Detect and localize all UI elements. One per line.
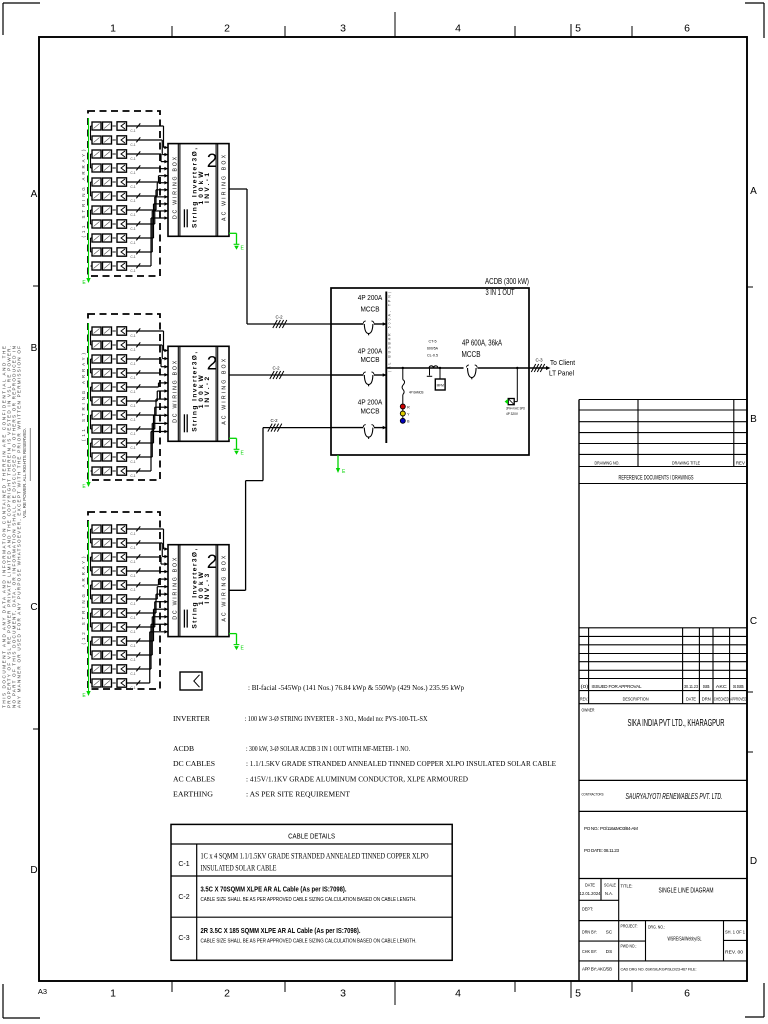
svg-text:AC CABLES: AC CABLES [173, 775, 215, 784]
svg-text:(AL BUSBAR 500A, TPN): (AL BUSBAR 500A, TPN) [387, 292, 391, 372]
svg-text:ACDB (300 kW): ACDB (300 kW) [485, 277, 529, 286]
svg-text:AC WIRING BOX: AC WIRING BOX [221, 555, 227, 622]
svg-text:4P 200A: 4P 200A [358, 398, 383, 407]
svg-text:(12 STRING ARRAY): (12 STRING ARRAY) [81, 556, 86, 645]
svg-text:C-1: C-1 [130, 269, 135, 273]
svg-text:: 100 kW 3-Ø STRING INVERTER -: : 100 kW 3-Ø STRING INVERTER - 3 NO., Mo… [245, 714, 428, 723]
svg-text:WSRE/SA/Webby/SL: WSRE/SA/Webby/SL [668, 937, 702, 943]
svg-text:SC: SC [606, 930, 613, 935]
svg-text:3PH+N AC SPD: 3PH+N AC SPD [506, 407, 525, 411]
svg-text:C-1: C-1 [130, 446, 135, 450]
svg-text:C-1: C-1 [130, 616, 135, 620]
svg-text:2: 2 [207, 552, 218, 573]
svg-text:C-3: C-3 [178, 935, 189, 942]
svg-text:DC WIRING BOX: DC WIRING BOX [173, 360, 179, 423]
svg-text:E: E [342, 469, 346, 475]
svg-text:INV.-3: INV.-3 [204, 573, 211, 603]
svg-text:30.11.23: 30.11.23 [684, 684, 698, 689]
svg-text:TITLE:: TITLE: [621, 884, 633, 889]
svg-text:SB: SB [703, 684, 710, 689]
svg-text:DS: DS [606, 949, 612, 954]
svg-text:DATE: DATE [585, 883, 595, 888]
svg-text:1: 1 [110, 988, 116, 1000]
svg-text:C-1: C-1 [130, 157, 135, 161]
svg-text:C-1: C-1 [130, 602, 135, 606]
svg-text:A: A [31, 189, 38, 200]
svg-text:CABLE DETAILS: CABLE DETAILS [288, 832, 335, 841]
svg-text:DC CABLES: DC CABLES [173, 759, 215, 768]
svg-text:4P 6AMCB: 4P 6AMCB [409, 391, 424, 395]
svg-text:INSULATED SOLAR CABLE: INSULATED SOLAR CABLE [201, 864, 277, 873]
svg-text:C-1: C-1 [130, 672, 135, 676]
svg-text:600/5A: 600/5A [427, 347, 439, 351]
svg-text:PWD NO.:: PWD NO.: [621, 944, 637, 949]
svg-text:6: 6 [684, 988, 690, 1000]
svg-text:: 1.1/1.5KV GRADE STRANDED ANN: : 1.1/1.5KV GRADE STRANDED ANNEALED TINN… [246, 759, 556, 768]
svg-text:C-2: C-2 [270, 418, 278, 423]
svg-text:VSL RE POWER. ALL RIGHTS RESE: VSL RE POWER. ALL RIGHTS RESERVED. [22, 428, 27, 518]
svg-text:C-1: C-1 [130, 644, 135, 648]
svg-text:DRAWING NO.: DRAWING NO. [595, 461, 620, 466]
svg-text:: 415V/1.1KV GRADE ALUMINUM CO: : 415V/1.1KV GRADE ALUMINUM CONDUCTOR, X… [246, 775, 468, 784]
svg-text:MCCB: MCCB [361, 407, 380, 416]
svg-text:(11 STRING ARRAY): (11 STRING ARRAY) [81, 352, 86, 441]
svg-text:(11 STRING ARRAY): (11 STRING ARRAY) [81, 149, 86, 238]
svg-text:3.5C X 70SQMM XLPE AR AL Cable: 3.5C X 70SQMM XLPE AR AL Cable (As per I… [201, 887, 347, 894]
svg-text:DRN: DRN [702, 697, 711, 702]
svg-text:2: 2 [207, 151, 218, 172]
svg-text:C-1: C-1 [130, 630, 135, 634]
svg-text:C-1: C-1 [130, 574, 135, 578]
svg-text:B: B [31, 343, 38, 354]
svg-text:C-2: C-2 [178, 894, 189, 901]
svg-text:E: E [82, 280, 86, 286]
svg-text:C-1: C-1 [130, 546, 135, 550]
svg-text:A: A [750, 186, 757, 197]
svg-text:12.01.2024: 12.01.2024 [580, 891, 602, 896]
svg-text:INVERTER: INVERTER [173, 714, 211, 723]
svg-text:: BI-facial -545Wp (141 Nos.): : BI-facial -545Wp (141 Nos.) 76.84 kWp … [248, 683, 464, 692]
svg-text:MCCB: MCCB [462, 350, 481, 359]
svg-text:4P 600A, 36kA: 4P 600A, 36kA [462, 339, 503, 348]
svg-text:C-1: C-1 [130, 129, 135, 133]
svg-text:C-2: C-2 [272, 366, 280, 371]
svg-text:C-1: C-1 [130, 460, 135, 464]
svg-text:2: 2 [224, 988, 230, 1000]
svg-text:C-1: C-1 [130, 390, 135, 394]
svg-text:: AS PER SITE REQUIREMENT: : AS PER SITE REQUIREMENT [246, 790, 350, 799]
svg-text:C-3: C-3 [535, 358, 543, 363]
svg-text:ISSUED FOR APPROVAL: ISSUED FOR APPROVAL [592, 684, 642, 689]
svg-text:5: 5 [575, 988, 581, 1000]
svg-text:INV.-2: INV.-2 [204, 376, 211, 406]
svg-text:C-1: C-1 [130, 432, 135, 436]
svg-text:C: C [30, 602, 37, 613]
svg-text:EARTHING: EARTHING [173, 790, 213, 799]
svg-text:MCCB: MCCB [361, 355, 380, 364]
svg-text:C-1: C-1 [130, 404, 135, 408]
svg-text:R: R [407, 405, 410, 409]
svg-text:3 IN 1 OUT: 3 IN 1 OUT [486, 288, 515, 297]
svg-text:SIKA INDIA PVT LTD., KHAR: SIKA INDIA PVT LTD., KHARAGPUR [628, 718, 725, 729]
svg-text:C-1: C-1 [130, 171, 135, 175]
svg-text:4: 4 [455, 23, 461, 35]
svg-text:DC WIRING BOX: DC WIRING BOX [173, 557, 179, 620]
svg-text:C-1: C-1 [130, 560, 135, 564]
svg-text:APPROVED: APPROVED [730, 697, 746, 702]
svg-text:SAURYAJYOTI RENEWABLES PVT.: SAURYAJYOTI RENEWABLES PVT. LTD. [626, 791, 723, 801]
svg-text:C-1: C-1 [130, 185, 135, 189]
svg-text:AC WIRING BOX: AC WIRING BOX [221, 154, 227, 221]
svg-text:ANY MANNER OR USED FOR ANY PUR: ANY MANNER OR USED FOR ANY PURPOSE WHATS… [17, 346, 22, 708]
svg-text:C-1: C-1 [130, 255, 135, 259]
svg-text:B: B [750, 414, 757, 425]
svg-text:CABLE SIZE SHALL BE AS PER APP: CABLE SIZE SHALL BE AS PER APPROVED CABL… [201, 897, 417, 903]
svg-text:REV.: REV. [580, 697, 588, 702]
svg-text:C-1: C-1 [130, 686, 135, 690]
svg-text:DRAWING TITLE: DRAWING TITLE [672, 461, 700, 466]
svg-text:REFERENCE DOCUMENTS / DRAWINGS: REFERENCE DOCUMENTS / DRAWINGS [619, 475, 694, 482]
svg-text:C-1: C-1 [178, 861, 189, 868]
svg-text:CABLE SIZE SHALL BE AS PER APP: CABLE SIZE SHALL BE AS PER APPROVED CABL… [201, 939, 417, 945]
svg-text:E: E [241, 245, 245, 251]
svg-text:CAD DRG NO. 6SK/SIL/KGP/SLD/23: CAD DRG NO. 6SK/SIL/KGP/SLD/23-467 FILE: [621, 968, 697, 972]
svg-text:MCCB: MCCB [361, 305, 380, 314]
svg-text:E: E [241, 450, 245, 456]
svg-text:C-1: C-1 [130, 418, 135, 422]
svg-text:4: 4 [455, 988, 461, 1000]
svg-text:DESCRIPTION: DESCRIPTION [623, 697, 649, 702]
svg-text:SSB: SSB [733, 684, 744, 689]
svg-text:C-1: C-1 [130, 227, 135, 231]
svg-text:E: E [82, 484, 86, 490]
svg-text:PO NO.: PO/116&MO3/84-AM: PO NO.: PO/116&MO3/84-AM [584, 826, 638, 831]
svg-text:REV. 00: REV. 00 [725, 950, 744, 955]
svg-text:C-1: C-1 [130, 143, 135, 147]
svg-text:3: 3 [340, 988, 346, 1000]
svg-text:Y: Y [407, 412, 410, 416]
svg-text:C-2: C-2 [275, 315, 283, 320]
svg-text:DEPT:: DEPT: [582, 907, 593, 912]
svg-text:REV: REV [736, 461, 746, 466]
svg-text:1C x 4 SQMM 1.1/1.5KV GRADE ST: 1C x 4 SQMM 1.1/1.5KV GRADE STRANDED ANN… [201, 852, 429, 861]
svg-text:INV.-1: INV.-1 [204, 173, 211, 203]
svg-text:AKC: AKC [716, 684, 728, 689]
svg-text:2R 3.5C X 185 SQMM XLPE AR AL: 2R 3.5C X 185 SQMM XLPE AR AL Cable (As … [201, 928, 361, 935]
svg-text:C-1: C-1 [130, 334, 135, 338]
svg-text:SH. 1 OF 1: SH. 1 OF 1 [725, 930, 746, 935]
svg-text:PO DATE: 08.11.23: PO DATE: 08.11.23 [584, 848, 619, 853]
svg-text:CONTRACTORS: CONTRACTORS [582, 792, 604, 797]
svg-text:DRG. NO.:: DRG. NO.: [648, 925, 665, 930]
svg-text:E: E [241, 646, 245, 652]
svg-text:SCALE: SCALE [604, 883, 616, 888]
svg-text:SINGLE LINE DIAGRAM: SINGLE LINE DIAGRAM [659, 886, 714, 895]
svg-text:E: E [82, 693, 86, 699]
svg-text:ACDB: ACDB [173, 744, 194, 753]
svg-text:To Client: To Client [550, 358, 576, 367]
svg-text:C-1: C-1 [130, 376, 135, 380]
svg-text:AC WIRING BOX: AC WIRING BOX [221, 358, 227, 425]
svg-text:CHECKED: CHECKED [714, 697, 729, 702]
svg-text:OWNER: OWNER [582, 708, 595, 713]
svg-text:2: 2 [224, 23, 230, 35]
svg-text:3: 3 [340, 23, 346, 35]
svg-text:C-1: C-1 [130, 348, 135, 352]
svg-text:DATE: DATE [686, 697, 696, 702]
svg-text:(0): (0) [581, 684, 590, 689]
svg-text:D: D [30, 865, 37, 876]
svg-text:DRN BY:: DRN BY: [582, 930, 597, 935]
svg-text:C-1: C-1 [130, 362, 135, 366]
svg-text:C-1: C-1 [130, 213, 135, 217]
svg-text:APP BY: AKC/SB: APP BY: AKC/SB [582, 967, 612, 972]
svg-text:6: 6 [684, 23, 690, 35]
svg-text:DC WIRING BOX: DC WIRING BOX [173, 156, 179, 219]
svg-text:N.A.: N.A. [605, 891, 613, 896]
svg-text:D: D [750, 856, 757, 867]
svg-text:C-1: C-1 [130, 588, 135, 592]
svg-text:2: 2 [207, 354, 218, 375]
svg-text:5: 5 [575, 23, 581, 35]
svg-text:MFM: MFM [437, 384, 445, 388]
svg-text:4P 320V: 4P 320V [506, 412, 519, 416]
svg-text:A3: A3 [38, 987, 47, 996]
svg-text:CHK BY:: CHK BY: [582, 949, 597, 954]
svg-text:C-1: C-1 [130, 199, 135, 203]
svg-text:C-1: C-1 [130, 474, 135, 478]
svg-text:1: 1 [110, 23, 116, 35]
svg-text:: 300 kW, 3-Ø SOLAR ACDB 3 IN: : 300 kW, 3-Ø SOLAR ACDB 3 IN 1 OUT WITH… [246, 744, 410, 753]
svg-text:C-1: C-1 [130, 532, 135, 536]
svg-text:CL-0.5: CL-0.5 [427, 354, 438, 358]
svg-text:B: B [407, 420, 410, 424]
svg-text:PROJECT:: PROJECT: [621, 924, 638, 929]
svg-text:CT-5: CT-5 [429, 340, 437, 344]
svg-text:C-1: C-1 [130, 241, 135, 245]
svg-text:C: C [750, 616, 757, 627]
svg-text:4P 200A: 4P 200A [358, 293, 383, 302]
svg-text:LT Panel: LT Panel [549, 369, 574, 378]
svg-text:C-1: C-1 [130, 658, 135, 662]
